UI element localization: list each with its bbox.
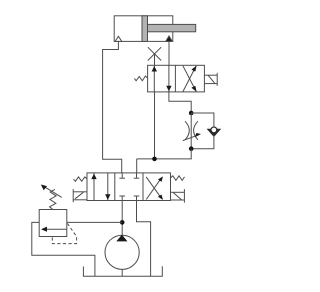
- wire: valve V2 port T to tank: [137, 201, 151, 277]
- valve V2 right solenoid: [171, 189, 185, 203]
- cylinder C1 body: [114, 16, 173, 42]
- wire: node N3 down to node N1 horizontal: [137, 149, 192, 159]
- wire: valve V2 port P down to pump: [121, 201, 123, 236]
- relief valve RV1 spring: [50, 189, 57, 209]
- check valve CV1: [208, 127, 220, 136]
- valve V1 left spring: [134, 76, 147, 81]
- valve V1 right position crossed arrows: [183, 66, 197, 92]
- cylinder C1 rod: [148, 24, 196, 31]
- wire: relief valve RV1 outlet to tank: [32, 222, 95, 276]
- tank T1: [83, 266, 162, 276]
- valve V1 left position arrows: [152, 65, 172, 92]
- cylinder C1 right port (filled triangle): [166, 36, 173, 41]
- valve V2 right position crossed arrows: [146, 176, 163, 200]
- valve V2 left position arrows: [91, 173, 110, 201]
- valve V2 left solenoid: [73, 189, 87, 202]
- wire: pump suction to tank: [121, 269, 123, 276]
- pump P1: [105, 235, 139, 270]
- wire: cylinder left port to valve V2 port A (long left line): [103, 41, 122, 173]
- wire: restrictor line: [190, 113, 192, 149]
- valve V1 right pilot/solenoid: [204, 73, 217, 86]
- cylinder C1 left port (open triangle): [115, 36, 122, 41]
- node N3 (junction dot): [189, 146, 194, 151]
- wire: check valve branch bottom: [191, 135, 214, 148]
- wire: valve V1 bottom-left port down to node N1: [154, 92, 156, 159]
- valve V2 centre position blocked ports: [119, 173, 139, 201]
- valve V2 (4/3 directional valve) body: [87, 173, 171, 201]
- wire: pressure line to relief valve RV1: [67, 221, 122, 223]
- relief valve RV1 internal arrow: [41, 227, 67, 232]
- valve V1 (4/2 directional valve) body: [148, 65, 205, 92]
- valve V2 right spring: [171, 176, 185, 181]
- node N4 (junction dot): [120, 220, 125, 225]
- relief valve RV1 pilot line (dashed): [52, 223, 76, 243]
- wire: node N1 to valve V2 port B: [136, 159, 138, 173]
- wire: cylinder right port down to valve V1: [168, 41, 170, 65]
- node N2 (junction dot): [189, 111, 194, 116]
- valve V2 left spring: [74, 177, 88, 181]
- plugged port X above valve V1: [148, 47, 161, 65]
- wire: check valve branch top: [191, 113, 214, 126]
- relief valve RV1 body: [39, 210, 67, 237]
- flow control valve FC1 (adjustable restrictor): [183, 121, 201, 140]
- relief valve RV1 adjustment arrow: [41, 185, 62, 198]
- node N1 (junction dot): [152, 157, 157, 162]
- cylinder C1 piston: [142, 16, 148, 42]
- wire: valve V1 bottom-right port to node N2: [169, 92, 191, 113]
